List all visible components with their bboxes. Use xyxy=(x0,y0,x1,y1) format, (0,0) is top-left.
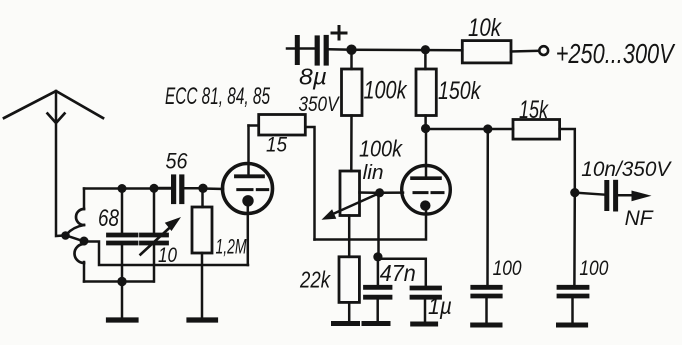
node: 47n top xyxy=(373,252,382,261)
svg-text:ECC 81, 84, 85: ECC 81, 84, 85 xyxy=(165,83,270,110)
svg-text:100: 100 xyxy=(579,257,608,280)
capacitor 100 (A) xyxy=(473,129,500,324)
svg-text:22k: 22k xyxy=(299,267,331,293)
node: 68 bottom xyxy=(117,277,126,286)
node: antenna tap xyxy=(61,231,70,240)
node: 68 top xyxy=(118,184,127,193)
resistor 15 xyxy=(249,115,315,240)
ground (1u) xyxy=(413,322,436,327)
coil L xyxy=(66,189,84,282)
wire: anode V2 to 15k xyxy=(426,128,513,131)
ground (1,2M / cathode) xyxy=(189,317,216,322)
node: wiper xyxy=(375,188,384,197)
svg-text:100: 100 xyxy=(493,257,522,280)
svg-text:NF: NF xyxy=(625,207,654,230)
electrolytic capacitor 8u xyxy=(287,27,352,64)
wire: V2 cathode bus xyxy=(315,210,427,240)
svg-text:lin: lin xyxy=(363,162,384,184)
svg-text:68: 68 xyxy=(98,205,120,232)
node: supply rail left xyxy=(346,45,356,55)
resistor 10k xyxy=(462,41,539,63)
resistor 15k xyxy=(513,120,575,193)
node: coil tap xyxy=(80,237,89,246)
resistor 100k (anode V1 supply) xyxy=(342,50,363,171)
resistor 1,2M xyxy=(192,189,212,318)
svg-text:350V: 350V xyxy=(299,92,341,116)
ground (tank) xyxy=(109,282,137,321)
resistor 22k xyxy=(339,257,359,322)
capacitor 1u xyxy=(378,259,440,323)
node: output xyxy=(570,188,579,197)
resistor 150k xyxy=(416,50,436,129)
ground (22k) xyxy=(334,321,358,326)
wire: grid node to tube V1 xyxy=(203,187,223,190)
node: supply rail right xyxy=(421,45,430,54)
svg-text:8µ: 8µ xyxy=(299,64,327,90)
svg-text:56: 56 xyxy=(166,149,189,174)
variable capacitor 10 xyxy=(141,189,182,282)
ground (47n) xyxy=(364,321,388,326)
svg-text:47n: 47n xyxy=(380,260,416,286)
svg-text:100k: 100k xyxy=(364,77,408,105)
svg-text:15k: 15k xyxy=(519,96,549,124)
antenna xyxy=(4,91,103,236)
capacitor 100 (B) xyxy=(559,193,587,324)
svg-text:1,2M: 1,2M xyxy=(216,236,247,259)
node: 100 cap A top xyxy=(483,124,492,133)
capacitor 68 xyxy=(109,189,137,282)
svg-text:1µ: 1µ xyxy=(428,293,452,319)
capacitor 47n xyxy=(366,257,391,322)
svg-text:15: 15 xyxy=(266,134,287,157)
terminal +250...300V xyxy=(539,46,548,55)
node: anode V2 xyxy=(421,124,430,133)
svg-text:10: 10 xyxy=(158,244,177,267)
svg-text:10k: 10k xyxy=(468,14,502,42)
svg-text:100k: 100k xyxy=(359,136,403,162)
capacitor 10n output xyxy=(575,182,652,209)
wire: wiper to grid V2 xyxy=(380,191,403,194)
node: grid 1 xyxy=(198,184,207,193)
wire: wiper node down xyxy=(377,193,380,257)
potentiometer 100k lin xyxy=(322,171,380,257)
svg-text:+250...300V: +250...300V xyxy=(556,38,676,69)
ground (100 B) xyxy=(559,323,586,328)
capacitor 56 xyxy=(158,177,203,202)
svg-text:10n/350V: 10n/350V xyxy=(581,158,672,181)
ground (100 A) xyxy=(473,323,500,328)
wire: B+ rail xyxy=(352,48,463,51)
node: 10 top xyxy=(150,184,159,193)
triode V2 xyxy=(402,129,451,215)
wire: tank bottom rail xyxy=(84,280,154,283)
svg-text:150k: 150k xyxy=(438,77,482,105)
triode V1 xyxy=(223,126,273,266)
wire: coil tap to ground bus xyxy=(84,242,248,266)
wire: tank top rail xyxy=(84,187,171,190)
